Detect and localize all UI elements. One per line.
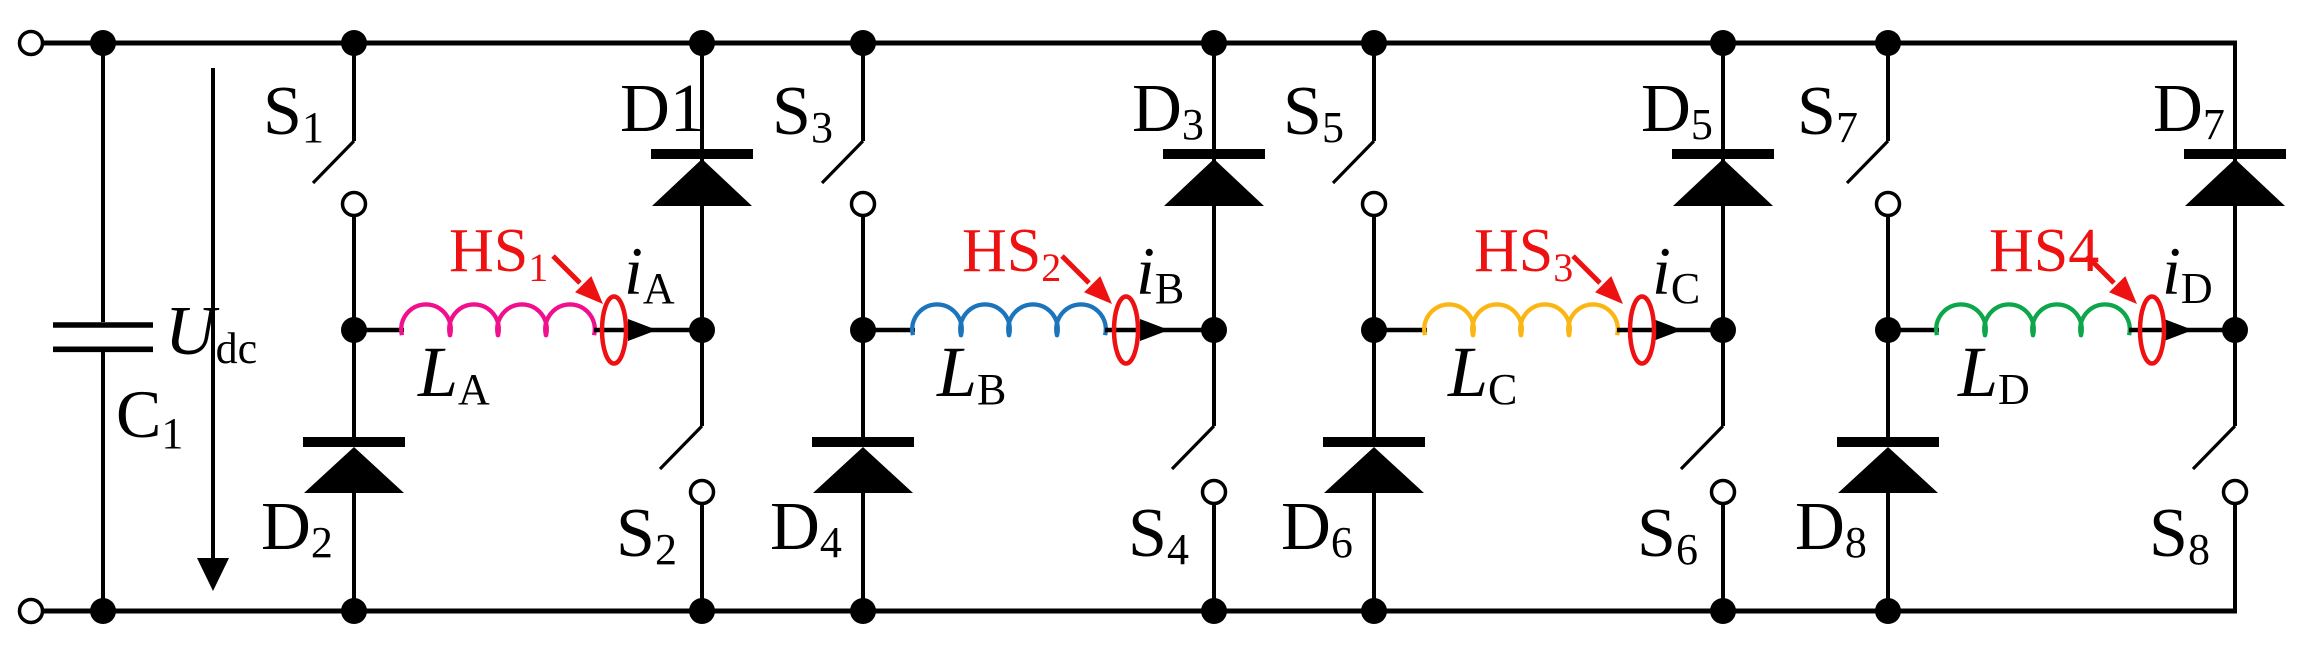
- node legD left bottom junction: [1875, 598, 1901, 624]
- wire capacitor branch lower: [101, 352, 105, 611]
- inductor LD coil: [1936, 304, 2130, 335]
- switch S5 blade: [1333, 141, 1374, 183]
- pointer arrow HS1: [553, 256, 603, 304]
- wire legD left branch upper (to switch S7): [1886, 43, 1890, 141]
- node legA output junction: [689, 317, 715, 343]
- svg-text:D2: D2: [261, 488, 333, 567]
- svg-text:HS2: HS2: [962, 217, 1061, 290]
- wire legC left branch upper (to switch S5): [1372, 43, 1376, 141]
- wire legC mid stub to inductor: [1374, 328, 1427, 333]
- node legC left mid junction: [1361, 317, 1387, 343]
- node legB output junction: [1201, 317, 1227, 343]
- wire legB left branch upper (to switch S3): [861, 43, 865, 141]
- svg-text:S2: S2: [616, 495, 677, 574]
- node legC output junction: [1710, 317, 1736, 343]
- switch S3 contact circle: [852, 193, 875, 216]
- svg-text:LB: LB: [936, 332, 1006, 414]
- node legC left top junction: [1361, 30, 1387, 56]
- wire legA switch S2 to bottom rail: [700, 503, 704, 611]
- node legD output junction: [2222, 317, 2248, 343]
- switch S2 blade: [660, 426, 702, 469]
- wire top rail: [42, 41, 2237, 46]
- wire legD right branch upper (through diode D7): [2233, 43, 2237, 426]
- pointer arrow HS2: [1062, 256, 1112, 304]
- current sensor HS1 ellipse: [602, 297, 626, 364]
- switch S4 contact circle: [1203, 481, 1226, 504]
- svg-text:LA: LA: [417, 332, 490, 414]
- switch S3 blade: [822, 141, 863, 183]
- wire legD inductor to node: [2129, 328, 2235, 333]
- wire legD mid node to diode D8: [1886, 330, 1890, 438]
- current sensor HS4 ellipse: [2140, 297, 2164, 364]
- svg-text:S6: S6: [1637, 495, 1698, 574]
- svg-text:D7: D7: [2153, 70, 2225, 149]
- node legA right bottom junction: [689, 598, 715, 624]
- wire legB switch S3 to mid node: [861, 215, 865, 330]
- node capacitor bottom junction: [90, 598, 116, 624]
- capacitor C1 plates: [53, 325, 153, 349]
- wire legC diode D6 to bottom rail: [1372, 493, 1376, 611]
- svg-text:iD: iD: [2162, 233, 2213, 313]
- wire legC switch S6 to bottom rail: [1721, 503, 1725, 611]
- wire legB right branch upper (through diode D3): [1212, 43, 1216, 426]
- wire legB mid stub to inductor: [863, 328, 915, 333]
- node legC left bottom junction: [1361, 598, 1387, 624]
- current arrow iB: [1140, 319, 1169, 341]
- svg-text:D4: D4: [770, 488, 842, 567]
- wire legA inductor to node: [594, 328, 702, 333]
- switch S7 contact circle: [1877, 193, 1900, 216]
- wire legC right branch upper (through diode D5): [1721, 43, 1725, 426]
- inductor LA coil: [401, 304, 595, 335]
- wire legA mid stub to inductor: [354, 328, 404, 333]
- wire legB switch S4 to bottom rail: [1212, 503, 1216, 611]
- wire legA diode D2 to bottom rail: [352, 493, 356, 611]
- wire legD mid stub to inductor: [1888, 328, 1939, 333]
- svg-text:D8: D8: [1795, 488, 1867, 567]
- svg-text:S1: S1: [263, 73, 324, 152]
- switch S8 contact circle: [2224, 481, 2247, 504]
- svg-text:HS3: HS3: [1474, 217, 1573, 290]
- diode D3: [1163, 154, 1265, 206]
- diode D2: [303, 442, 405, 493]
- svg-text:iC: iC: [1652, 233, 1700, 313]
- svg-text:D3: D3: [1132, 70, 1204, 149]
- diode D8: [1837, 442, 1939, 493]
- wire legC switch S5 to mid node: [1372, 215, 1376, 330]
- node legD left mid junction: [1875, 317, 1901, 343]
- svg-text:HS1: HS1: [449, 217, 548, 290]
- wire legB mid node to diode D4: [861, 330, 865, 438]
- switch S5 contact circle: [1363, 193, 1386, 216]
- switch S1 contact circle: [343, 193, 366, 216]
- switch S2 contact circle: [691, 481, 714, 504]
- inductor LC coil: [1424, 304, 1618, 335]
- svg-text:iB: iB: [1136, 233, 1184, 313]
- wire bottom rail: [42, 609, 2237, 614]
- switch S4 blade: [1172, 426, 1214, 469]
- diode D7: [2184, 154, 2286, 206]
- wire legD switch S7 to mid node: [1886, 215, 1890, 330]
- svg-text:D5: D5: [1641, 70, 1713, 149]
- current arrow iC: [1653, 319, 1682, 341]
- diode D6: [1323, 442, 1425, 493]
- svg-text:S5: S5: [1283, 73, 1344, 152]
- svg-text:C1: C1: [116, 376, 183, 458]
- wire legC mid node to diode D6: [1372, 330, 1376, 438]
- svg-text:LC: LC: [1447, 332, 1517, 414]
- diode D1: [651, 154, 753, 206]
- switch S1 blade: [313, 141, 354, 183]
- node legB left mid junction: [850, 317, 876, 343]
- wire legA left branch upper (to switch S1): [352, 43, 356, 141]
- current sensor HS2 ellipse: [1114, 297, 1138, 364]
- node capacitor top junction: [90, 30, 116, 56]
- wire legA right branch upper (through diode D1): [700, 43, 704, 426]
- node legB right top junction: [1201, 30, 1227, 56]
- wire legC inductor to node: [1617, 328, 1723, 333]
- svg-text:S8: S8: [2149, 495, 2210, 574]
- terminal bottom-left (open circle): [20, 600, 43, 623]
- wire legD diode D8 to bottom rail: [1886, 493, 1890, 611]
- node legA right top junction: [689, 30, 715, 56]
- node legA left mid junction: [341, 317, 367, 343]
- svg-text:iA: iA: [624, 233, 675, 313]
- node legB right bottom junction: [1201, 598, 1227, 624]
- node legD left top junction: [1875, 30, 1901, 56]
- node legB left top junction: [850, 30, 876, 56]
- wire legB diode D4 to bottom rail: [861, 493, 865, 611]
- svg-text:LD: LD: [1957, 332, 2030, 414]
- node legA left top junction: [341, 30, 367, 56]
- wire capacitor branch upper: [101, 43, 105, 322]
- current sensor HS3 ellipse: [1630, 297, 1654, 364]
- switch S6 blade: [1681, 426, 1723, 469]
- switch S8 blade: [2193, 426, 2235, 469]
- svg-text:D6: D6: [1281, 488, 1353, 567]
- switch S7 blade: [1847, 141, 1888, 183]
- node legA left bottom junction: [341, 598, 367, 624]
- svg-text:D1: D1: [620, 70, 704, 146]
- diode D4: [812, 442, 914, 493]
- Udc voltage arrow: [197, 68, 229, 591]
- node legB left bottom junction: [850, 598, 876, 624]
- svg-text:HS4: HS4: [1989, 217, 2099, 285]
- svg-text:S4: S4: [1128, 495, 1189, 574]
- diode D5: [1672, 154, 1774, 206]
- wire legD switch S8 to bottom rail: [2233, 503, 2237, 611]
- svg-text:S7: S7: [1797, 73, 1858, 152]
- current arrow iD: [2164, 319, 2193, 341]
- wire legA mid node to diode D2: [352, 330, 356, 438]
- current arrow iA: [628, 319, 657, 341]
- node legC right top junction: [1710, 30, 1736, 56]
- pointer arrow HS3: [1573, 256, 1623, 304]
- node legC right bottom junction: [1710, 598, 1736, 624]
- svg-text:Udc: Udc: [165, 293, 257, 373]
- inductor LB coil: [912, 304, 1106, 335]
- svg-text:S3: S3: [772, 73, 833, 152]
- switch S6 contact circle: [1712, 481, 1735, 504]
- pointer arrow HS4: [2087, 256, 2137, 304]
- wire legB inductor to node: [1105, 328, 1214, 333]
- terminal top-left (open circle): [20, 32, 43, 55]
- wire legA switch S1 to mid node: [352, 215, 356, 330]
